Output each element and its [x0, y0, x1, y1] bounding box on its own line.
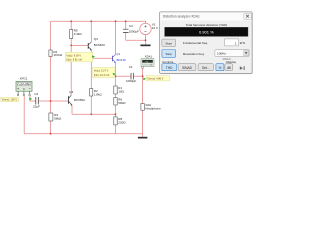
svg-text:BC546C: BC546C	[94, 43, 106, 47]
wire node A to Q3 base	[71, 44, 88, 46]
svg-text:C2: C2	[34, 92, 38, 96]
wire R3 bottom stub	[50, 121, 52, 134]
svg-text:12 V: 12 V	[152, 26, 158, 30]
probe label output node	[93, 67, 115, 77]
svg-text:197kΩ: 197kΩ	[53, 53, 63, 57]
junction rail C3	[125, 20, 127, 22]
svg-text:XFG1: XFG1	[20, 77, 28, 81]
junction output node	[115, 75, 117, 77]
wire node A down to Q4 collector	[70, 45, 72, 95]
probe label node A voltage	[65, 52, 93, 62]
svg-text:100Hz: 100Hz	[217, 52, 226, 56]
svg-text:Total harmonic distortion (THD: Total harmonic distortion (THD)	[186, 23, 228, 27]
junction rail Q1 collector	[115, 20, 117, 22]
svg-text:I(dc): 5.81 mA: I(dc): 5.81 mA	[66, 58, 82, 61]
wire R2 bottom to feedback node	[90, 96, 92, 114]
wire node B down to R2	[90, 58, 92, 88]
wire XFG1 common riser	[23, 96, 25, 134]
svg-text:SINAD: SINAD	[182, 66, 192, 70]
resistor R2	[90, 89, 103, 97]
svg-text:%: %	[218, 66, 221, 70]
wire Q1 collector riser	[115, 21, 117, 55]
svg-text:C1: C1	[129, 65, 133, 69]
wire R5 bottom to node A	[70, 39, 72, 46]
resistor R6	[114, 97, 127, 105]
ground lower (rail)	[138, 137, 148, 139]
resistor R1	[114, 86, 125, 94]
wire bottom ground rail	[24, 133, 142, 135]
wire upper ground stub	[145, 40, 147, 44]
svg-text:1000µF: 1000µF	[126, 79, 136, 83]
wire R1 to R6	[115, 94, 117, 98]
wire lower ground stub	[142, 134, 144, 137]
transistor Q3 BC546C	[88, 37, 106, 51]
svg-text:Fundamental freq.: Fundamental freq.	[183, 41, 208, 45]
wire load bottom to rail	[142, 110, 144, 134]
wire R8 bottom to rail	[115, 125, 117, 134]
wire left column from rail to R4	[50, 21, 52, 50]
svg-text:Display: Display	[226, 60, 236, 64]
junction rail R5	[70, 20, 72, 22]
svg-text:Start: Start	[165, 41, 172, 45]
svg-text:V(rms): 126 V: V(rms): 126 V	[2, 99, 18, 102]
svg-text:XDA1: XDA1	[145, 54, 153, 58]
svg-text:1000µF: 1000µF	[129, 30, 139, 34]
ground upper (V1)	[140, 45, 150, 47]
resistor R3	[49, 113, 62, 121]
junction R6 R8	[115, 113, 117, 115]
wire node B to Q1 base	[91, 57, 112, 59]
svg-text:dB: dB	[227, 66, 231, 70]
svg-text:560Ω: 560Ω	[118, 101, 126, 105]
junction base node	[50, 100, 52, 102]
junction rail Q3 collector	[90, 20, 92, 22]
svg-text:Set...: Set...	[202, 66, 210, 70]
wire Q1 emitter to output node	[115, 62, 117, 76]
transistor Q4 BC550C	[69, 90, 87, 106]
wire R4 bottom to base node	[50, 57, 52, 102]
probe arrow headphone node	[143, 77, 146, 80]
svg-text:BD139: BD139	[117, 58, 127, 62]
wire C1 to headphone node	[134, 75, 143, 77]
svg-text:C3: C3	[129, 24, 133, 28]
resistor R4	[49, 50, 63, 57]
svg-text:THD: THD	[145, 61, 150, 63]
function generator XFG1	[16, 77, 32, 96]
svg-text:Q4: Q4	[69, 90, 73, 94]
wire Q4 emitter drop	[71, 105, 73, 114]
wire C2 to Q4 base	[39, 100, 68, 102]
wire R1 top stub	[115, 76, 117, 86]
svg-text:1: 1	[235, 41, 237, 45]
probe arrow input	[29, 98, 32, 101]
wire C3 top stub	[125, 21, 127, 29]
probe label headphone V(rms)	[146, 76, 170, 81]
svg-text:Q3: Q3	[94, 37, 98, 41]
svg-text:Stop: Stop	[166, 52, 173, 56]
svg-text:I(dc): 10.3 mA: I(dc): 10.3 mA	[94, 74, 110, 77]
resistor R8	[114, 117, 127, 125]
svg-text:V(rms): 4.96 V: V(rms): 4.96 V	[147, 78, 163, 81]
wire Q3 collector riser to rail	[90, 21, 92, 42]
svg-text:BC550C: BC550C	[74, 98, 86, 102]
wire emitter feedback run	[72, 113, 116, 115]
wire headphone node down to load	[142, 76, 144, 103]
wire Q3 emitter to node B	[90, 50, 92, 59]
probe arrow output node	[112, 73, 115, 76]
wire R5 top stub	[70, 21, 72, 29]
svg-text:Headphone: Headphone	[145, 107, 161, 111]
junction headphone node	[142, 75, 144, 77]
svg-text:Q1: Q1	[116, 52, 120, 56]
svg-text:3.3kΩ: 3.3kΩ	[74, 32, 83, 36]
wire V1 bottom stub	[145, 35, 147, 41]
svg-text:THD: THD	[166, 66, 173, 70]
resistor R5	[70, 28, 83, 38]
svg-text:0.901 %: 0.901 %	[199, 30, 214, 35]
capacitor C1	[126, 65, 136, 83]
voltage source V1	[140, 23, 158, 35]
wire XDA1 input drop	[142, 68, 144, 76]
svg-text:56kΩ: 56kΩ	[54, 116, 62, 120]
probe arrow node B	[92, 55, 95, 58]
wire R8 top stub	[115, 114, 117, 117]
svg-text:220Ω: 220Ω	[118, 120, 126, 124]
junction R3 rail	[50, 133, 52, 135]
svg-text:V(dc): 6.27 V: V(dc): 6.27 V	[94, 70, 109, 73]
wire C3 to V1 bottom	[126, 39, 146, 41]
wire V1 top stub	[145, 21, 147, 23]
svg-text:Resolution freq.: Resolution freq.	[183, 52, 205, 56]
resistor R7 headphone load	[141, 103, 161, 111]
svg-text:1.8kΩ: 1.8kΩ	[94, 92, 103, 96]
wire input to C2	[30, 100, 36, 102]
junction node A	[70, 45, 72, 47]
svg-text:10Ω: 10Ω	[118, 90, 124, 94]
wire output node to C1	[116, 75, 131, 77]
svg-text:Distortion analyzer-XDA1: Distortion analyzer-XDA1	[163, 14, 200, 18]
transistor Q1 BD139	[113, 52, 126, 63]
svg-text:V(dc): 9.09 V: V(dc): 9.09 V	[66, 54, 81, 57]
svg-text:kHz: kHz	[240, 41, 246, 45]
wire R6 bottom	[115, 105, 117, 114]
capacitor C2	[33, 92, 40, 108]
svg-text:22µF: 22µF	[33, 105, 40, 109]
capacitor C3	[123, 24, 139, 34]
wire XFG1 plus terminal drop	[29, 96, 31, 101]
probe label input V(rms)	[1, 97, 19, 101]
junction V1 C3 bottom	[145, 39, 147, 41]
wire C3 bottom stub	[125, 33, 127, 41]
junction R2 feedback	[90, 113, 92, 115]
wire top +12V rail	[51, 20, 147, 22]
wire R3 top stub	[50, 101, 52, 113]
junction node B	[90, 57, 92, 59]
distortion analyzer icon XDA1	[141, 54, 154, 68]
dialog window distortion analyzer	[160, 12, 253, 74]
